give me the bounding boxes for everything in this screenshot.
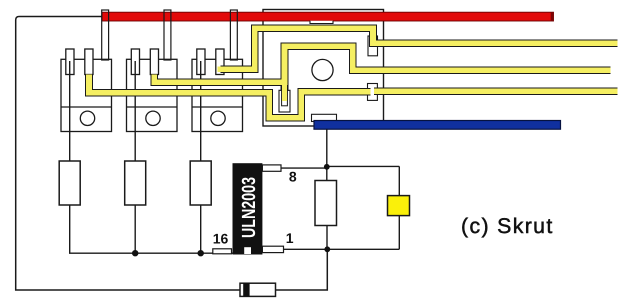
yellow coil wire bar 3 [374, 89, 617, 95]
wire: S1 third leg channel to red bus [102, 10, 109, 60]
switch S1 body [61, 59, 112, 131]
svg-text:1: 1 [286, 230, 294, 246]
stepper motor M1 outline [263, 10, 384, 127]
yellow wire net 1: S1 pin B to motor bottom lug to coil bar 3 (black underlay) [89, 28, 618, 117]
switch S2 flange divider [127, 106, 178, 108]
yellow wire: S2 pin B - center tap - coil bar2 [154, 46, 610, 82]
wire: U1 pin 8 to common node [281, 167, 327, 169]
switch S3 flange divider [192, 106, 243, 108]
switch S1 pin A [66, 49, 74, 75]
svg-text:ULN2003: ULN2003 [239, 177, 260, 238]
diode D1 body [240, 283, 276, 296]
wire: bottom right segment from diode to junction [276, 249, 328, 290]
LED D2 (yellow) [388, 196, 410, 216]
motor M1 center-tap terminal slot [279, 90, 290, 112]
yellow wire: S1 pin B - motor bottom path - coil bar3 start [89, 74, 371, 117]
switch S1 mounting hole [80, 111, 94, 125]
wire: R3 lead down to bus [200, 205, 202, 253]
switch S2 pin A [131, 49, 139, 75]
wire: S2 lead to R2 [134, 61, 136, 161]
wire: S1 lead to R1 [69, 61, 71, 161]
U1 pin 16 lug [213, 249, 232, 254]
switch S2 pin B [150, 49, 158, 75]
switch S1 pin B [85, 49, 93, 75]
ULN2003 chip U1 body [233, 163, 263, 254]
svg-text:8: 8 [289, 169, 297, 185]
wire: LED loop bottom [327, 248, 399, 250]
motor M1 right terminal lug T1 [368, 36, 378, 56]
yellow wire net overlays [89, 28, 618, 117]
wire: U1 pin 1 to junction [284, 248, 328, 250]
wire: R4 bottom to junction [326, 226, 328, 250]
switch S1 flange divider [61, 106, 112, 108]
switch S3 pin B [216, 49, 224, 75]
switch S3 pin A [197, 49, 205, 75]
wire: LED loop top [327, 165, 400, 167]
motor M1 bottom terminal lug (blue wire) [312, 114, 337, 121]
switch S3 mounting hole [211, 111, 225, 125]
wire: LED loop right side [398, 166, 400, 249]
junction node on bus at R3 [198, 250, 204, 256]
switch S2 body [127, 59, 178, 131]
wire: R2 lead down to bus [134, 205, 136, 253]
wire: S2 third leg channel to red bus [164, 10, 171, 60]
U1 pin 8 lug [262, 165, 281, 171]
red supply wire (+V bus) [102, 12, 554, 21]
wire: blue bus down through common node to R4 [326, 129, 328, 180]
resistor R4 [315, 181, 337, 226]
svg-text:(c) Skrut: (c) Skrut [461, 214, 554, 238]
U1 index notch [244, 247, 251, 254]
junction node at pin1 [324, 246, 330, 252]
resistor R1 [59, 161, 80, 205]
resistor R2 [125, 161, 146, 205]
junction node at pin8/common [324, 164, 330, 170]
motor M1 right terminal lug T2 [368, 84, 378, 101]
switch S3 body [192, 59, 243, 131]
blue common wire [314, 121, 561, 130]
yellow wire: S3 pin B - over motor - coil bar1 [218, 28, 618, 69]
wire: R1 lead + bottom bus to U1 pin 16 [70, 205, 233, 253]
wire: S3 third leg channel to red bus [230, 10, 237, 60]
yellow stub into center-tap slot [282, 80, 287, 101]
switch S2 mounting hole [146, 111, 160, 125]
wire: outer frame left+top (supply loop) [16, 17, 240, 291]
U1 pin 1 lug [262, 246, 283, 252]
junction node on bus at R2 [132, 250, 138, 256]
resistor R3 [190, 161, 211, 205]
svg-text:16: 16 [213, 231, 229, 247]
motor M1 top terminal lug (red wire) [310, 21, 333, 24]
stepper motor M1 shaft circle [312, 59, 333, 80]
diode D1 cathode band [243, 283, 249, 296]
wire: S3 lead to R3 [200, 61, 202, 161]
